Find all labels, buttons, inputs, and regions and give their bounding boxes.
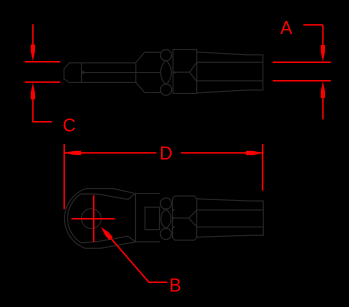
svg-text:B: B	[169, 275, 181, 295]
svg-text:A: A	[280, 18, 292, 38]
svg-text:C: C	[63, 116, 76, 136]
svg-text:D: D	[160, 144, 173, 164]
